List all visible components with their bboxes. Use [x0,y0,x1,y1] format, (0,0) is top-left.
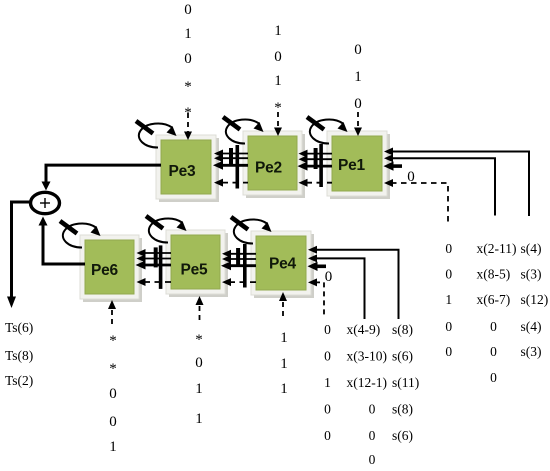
svg-text:Pe4: Pe4 [269,256,297,273]
short tick bar [229,148,233,166]
svg-text:*: * [109,333,117,349]
dashed input arrow into Pe2 top [274,112,282,136]
svg-text:Pe2: Pe2 [255,160,282,177]
input column above Pe2 [274,23,282,116]
clock loop Pe5 [146,216,187,243]
svg-text:1: 1 [280,356,288,372]
svg-text:1: 1 [280,330,288,346]
short tick bar [154,247,158,267]
wire 1 [304,153,332,155]
svg-text:1: 1 [445,292,452,307]
svg-text:0: 0 [369,452,376,467]
svg-text:0: 0 [490,344,497,359]
svg-text:0: 0 [195,355,203,371]
dashed wire [306,182,332,184]
svg-text:0: 0 [354,42,362,58]
svg-text:1: 1 [184,26,192,42]
output wire from summing junction [7,202,29,308]
tall tick bar [319,144,323,187]
processing element Pe5 [166,230,228,297]
svg-text:x(8-5): x(8-5) [477,267,511,282]
tall tick bar [243,244,247,288]
Pe1 dashed input wire with 0 label [384,169,448,222]
svg-text:1: 1 [109,439,117,455]
svg-text:x(3-10): x(3-10) [347,349,388,364]
Pe1 stub input arrow [384,161,403,170]
summing junction [31,192,60,213]
tall tick bar [236,145,240,189]
svg-text:0: 0 [369,402,376,417]
svg-text:x(4-9): x(4-9) [347,322,381,337]
data table for Pe1 inputs [445,241,548,385]
svg-text:0: 0 [490,370,497,385]
clock loop Pe3 [136,121,177,148]
bus connector Pe2 to Pe3 [213,145,248,189]
svg-text:Ts(8): Ts(8) [5,348,33,363]
svg-text:Ts(6): Ts(6) [5,320,33,335]
svg-text:0: 0 [324,428,331,443]
svg-text:1: 1 [195,381,203,397]
data table for Pe4 inputs [324,322,419,467]
svg-text:0: 0 [184,2,192,18]
wire 3 [142,264,171,267]
dashed wire [144,281,171,283]
svg-text:1: 1 [354,69,362,85]
svg-text:0: 0 [354,96,362,112]
svg-text:0: 0 [109,414,117,430]
short tick bar [236,248,240,267]
dashed wire [229,281,256,283]
wire Pe3 to summing junction [42,165,162,190]
input column below Pe4 [280,330,288,397]
svg-text:s(12): s(12) [521,292,549,307]
svg-text:0: 0 [445,267,452,282]
svg-text:s(8): s(8) [392,322,413,337]
svg-text:x(12-1): x(12-1) [347,375,388,390]
svg-text:s(11): s(11) [392,375,419,390]
svg-text:x(2-11): x(2-11) [477,241,517,256]
input column above Pe3 [184,2,192,121]
svg-text:Pe5: Pe5 [181,262,209,279]
clock loop Pe6 [60,221,101,248]
svg-text:s(6): s(6) [392,349,413,364]
clock loop Pe2 [223,117,264,144]
svg-text:0: 0 [184,51,192,67]
input column below Pe5 [195,332,203,427]
Pe4 input wire x (from right) [308,254,365,319]
wire 3 [220,164,248,167]
svg-text:s(3): s(3) [521,344,542,359]
Pe4 stub input arrow [308,262,327,271]
svg-text:1: 1 [274,23,282,39]
wire 1 [228,253,257,255]
svg-text:s(8): s(8) [392,402,413,417]
svg-text:0: 0 [445,319,452,334]
dashed input arrow into Pe3 top [184,113,192,140]
processing element Pe6 [80,235,142,302]
processing element Pe4 [251,231,314,298]
tall tick bar [159,245,163,289]
wire 3 [304,165,332,168]
wire 1 [142,252,171,254]
wire 2 [142,258,171,260]
svg-text:*: * [109,361,117,377]
svg-text:0: 0 [324,402,331,417]
svg-text:s(6): s(6) [392,428,413,443]
processing element Pe2 [243,131,305,198]
short tick bar [314,148,318,169]
bus connector Pe1 to Pe2 [298,144,333,187]
svg-text:Pe3: Pe3 [169,163,197,180]
dashed input arrow into Pe5 bottom [196,296,204,322]
svg-text:0: 0 [445,344,452,359]
dashed input arrow into Pe1 top [354,112,362,136]
Pe4 dashed input wire with 0 label [308,269,332,318]
svg-text:*: * [184,79,192,95]
svg-text:1: 1 [195,411,203,427]
processing element Pe3 [156,135,219,202]
wire Pe6 to summing junction [39,217,86,265]
dashed wire [222,182,248,184]
wire 2 [220,157,248,159]
Pe1 input wire x (from right) [384,154,495,215]
bus connector Pe4 to Pe5 [221,244,256,288]
Pe1 input wire s (top, from far right) [384,148,529,217]
svg-text:Ts(2): Ts(2) [5,373,33,388]
wire 2 [304,158,332,160]
output labels Ts [5,320,33,388]
input column below Pe6 [109,333,117,455]
input column above Pe1 [354,42,362,112]
svg-text:Pe6: Pe6 [91,262,119,279]
svg-text:x(6-7): x(6-7) [477,292,511,307]
bus connector Pe5 to Pe6 [136,245,172,289]
svg-text:*: * [195,332,203,348]
svg-text:0: 0 [324,349,331,364]
svg-text:0: 0 [490,319,497,334]
svg-text:s(3): s(3) [521,267,542,282]
wire 2 [228,258,257,260]
svg-text:s(4): s(4) [521,241,542,256]
dashed input arrow into Pe6 bottom [108,300,116,325]
svg-text:0: 0 [274,49,282,65]
svg-text:0: 0 [445,241,452,256]
svg-text:0: 0 [324,322,331,337]
svg-text:s(4): s(4) [521,319,542,334]
clock loop Pe1 [307,117,348,144]
Pe4 input wire s (top, from right) [308,246,399,319]
svg-text:0: 0 [109,386,117,402]
svg-text:1: 1 [324,375,331,390]
svg-text:0: 0 [369,428,376,443]
dashed input arrow into Pe4 bottom [279,292,287,318]
svg-text:Pe1: Pe1 [338,157,366,174]
svg-text:0: 0 [407,169,415,185]
svg-text:0: 0 [325,269,333,285]
clock loop Pe4 [231,217,272,244]
svg-text:1: 1 [274,73,282,89]
processing element Pe1 [327,131,390,199]
wire 3 [228,264,257,267]
svg-text:1: 1 [280,381,288,397]
wire 1 [220,153,248,155]
